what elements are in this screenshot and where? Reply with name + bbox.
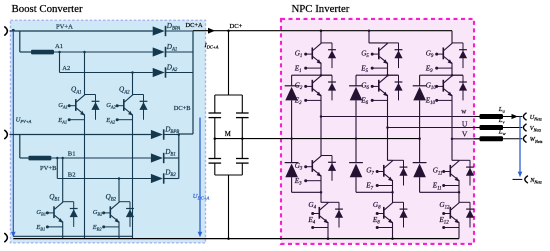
label G of Q8: [373, 201, 381, 211]
wire node to Q4 collector: [321, 192, 328, 202]
label PV+A: [56, 24, 73, 31]
voltage arrow to N_Netz: [518, 117, 523, 178]
label E of Q6: [360, 97, 368, 107]
wire phase U: [388, 127, 481, 129]
label G of Q1: [295, 49, 303, 59]
freewheel diode of Q12: [459, 202, 474, 227]
wire Q10 emitter to phase tap and Q11 collector: [451, 100, 459, 160]
wire Q5 emitter to node: [387, 68, 389, 75]
label QA2: [119, 86, 130, 96]
wire Q12 emitter to DC- rail: [458, 228, 460, 239]
label DC+: [230, 23, 243, 30]
label E of Q3: [294, 177, 302, 187]
wire Q3 emitter to node: [320, 181, 322, 193]
svg-text:NPC Inverter: NPC Inverter: [292, 3, 350, 15]
clamp diode lower leg 3: [413, 139, 427, 193]
wire DC- rail: [13, 237, 459, 240]
wire PV+A to inductor A: [20, 31, 31, 52]
label QA1: [71, 86, 82, 96]
transistor Q5: [371, 43, 388, 70]
label V: [462, 129, 468, 138]
wire Q9 emitter to node: [451, 68, 453, 75]
wire DC+ rail to Q5 collector: [368, 29, 388, 43]
label D_A1: [166, 43, 178, 53]
wire branch A2: [60, 52, 153, 74]
label D_A2: [166, 63, 178, 73]
wire grid phase V: [503, 127, 523, 129]
inductor channel B: [28, 156, 51, 161]
label L_u: [498, 106, 506, 114]
wire grid phase U: [503, 116, 523, 118]
freewheel diode of Q_A1: [85, 95, 100, 120]
node M rail: [214, 137, 420, 140]
wire lower clamp node leg 1: [292, 191, 323, 194]
svg-text:PV+A: PV+A: [56, 24, 73, 31]
label D_BPB: [164, 125, 179, 135]
wire node to Q12 collector: [458, 192, 460, 202]
transistor Q6: [371, 75, 388, 102]
label U_PV+A: [16, 116, 32, 124]
svg-text:M: M: [225, 131, 231, 138]
voltage arrow U_PV+A: [11, 31, 16, 237]
label E of Q8: [372, 216, 380, 226]
svg-text:A2: A2: [62, 65, 70, 72]
wire upper clamp node leg 3: [420, 74, 463, 77]
label G of Q9: [426, 49, 434, 59]
wire Q7 emitter to node: [392, 186, 394, 193]
svg-text:B2: B2: [68, 171, 76, 178]
wire DC link bottom join: [215, 175, 243, 240]
label E of Q2: [294, 97, 302, 107]
wire emitter Q_B1 to negative rail: [62, 227, 64, 239]
wire lower clamp node leg 3: [420, 191, 461, 194]
label E of Q5: [360, 64, 368, 74]
capacitor bank upper: [209, 95, 249, 139]
wire upper clamp node leg 2: [356, 74, 399, 77]
label E of Q11: [432, 182, 442, 192]
freewheel diode of Q4: [328, 202, 343, 227]
label G of Q7: [366, 167, 374, 177]
title Boost Converter: [12, 3, 83, 15]
label E of Q_A2: [105, 117, 116, 125]
label D_B2: [164, 168, 176, 178]
freewheel diode of Q5: [388, 43, 403, 68]
label M: [225, 131, 231, 138]
wire branch B1: [51, 157, 150, 160]
wire node to Q8 collector: [392, 192, 394, 202]
freewheel diode of Q6: [388, 75, 403, 100]
freewheel diode of Q8: [393, 202, 408, 227]
wire emitter Q_A1 to negative rail: [84, 120, 86, 239]
label E of Q12: [438, 216, 449, 226]
label W_Netz: [530, 136, 543, 144]
wire collector Q_A2: [132, 73, 134, 95]
label B2: [68, 171, 76, 178]
freewheel diode of Q11: [459, 160, 474, 185]
wire neutral N: [513, 178, 523, 180]
label DC+B: [174, 105, 191, 112]
label A2: [62, 65, 70, 72]
wire DC link drop: [215, 31, 243, 95]
wire emitter Q_B2 to negative rail: [118, 227, 120, 239]
transistor Q3: [304, 156, 321, 183]
clamp diode upper leg 2: [349, 75, 363, 140]
wire phase W: [321, 116, 480, 118]
wire Q2 emitter to phase tap and Q3 collector: [320, 100, 323, 155]
wire PV+B rail: [10, 134, 151, 136]
arrow on DC+ rail: [208, 28, 215, 34]
label QB2: [106, 193, 117, 203]
label E of Q10: [425, 97, 436, 107]
freewheel diode of Q2: [321, 75, 336, 100]
wire collector Q_B2: [118, 179, 120, 202]
clamp diode lower leg 2: [349, 139, 363, 193]
label W: [461, 108, 467, 116]
diode D_B1: [151, 153, 179, 163]
svg-text:A1: A1: [55, 43, 63, 50]
diode D_BPB: [151, 129, 179, 139]
label I_DC+A: [204, 42, 219, 50]
wire lower clamp node leg 2: [356, 191, 394, 194]
label G of Q10: [426, 82, 437, 92]
wire DC+B cathode bus: [178, 135, 180, 179]
transistor Q11: [442, 161, 459, 188]
arrow on phase W wire: [512, 114, 518, 119]
wire upper clamp node leg 1: [292, 74, 332, 77]
svg-text:B1: B1: [68, 150, 76, 157]
label U_DC+A: [193, 193, 210, 201]
neutral terminal N_Netz: [525, 176, 528, 183]
wire Q1 emitter to node: [320, 68, 322, 75]
wire Q6 emitter to phase tap and Q7 collector: [386, 100, 392, 160]
transistor Q7: [376, 161, 393, 188]
freewheel diode of Q9: [452, 43, 467, 68]
grid terminal W_Netz: [523, 135, 526, 142]
wire branch A1: [54, 51, 153, 54]
wire collector Q_A1: [84, 52, 86, 95]
wire PV+A rail: [10, 29, 153, 32]
wire phase V: [452, 138, 480, 140]
label G of Q12: [439, 201, 450, 211]
freewheel diode of Q7: [393, 160, 408, 185]
label E of Q_B2: [92, 224, 103, 232]
label G of Q_B2: [93, 209, 103, 217]
transistor Q12: [442, 203, 459, 230]
NPC inverter enclosure box: [281, 19, 474, 244]
filter inductor L_v: [474, 125, 503, 130]
svg-text:Boost Converter: Boost Converter: [12, 3, 83, 15]
freewheel diode of Q_A2: [133, 95, 148, 120]
label N_Netz: [529, 177, 542, 185]
transistor Q8: [376, 203, 393, 230]
svg-text:DC+: DC+: [230, 23, 243, 30]
clamp diode lower leg 1: [285, 139, 299, 193]
transistor Q1: [304, 43, 321, 70]
svg-text:DC+A: DC+A: [186, 22, 203, 29]
label QB1: [49, 193, 60, 203]
label A1: [55, 43, 63, 50]
label L_w: [498, 128, 507, 136]
transistor Q_B2: [102, 202, 119, 229]
wire DC+ rail: [193, 29, 452, 32]
label G of Q_A2: [106, 102, 116, 110]
freewheel diode of Q_B1: [63, 202, 78, 227]
label L_v: [498, 117, 506, 125]
transistor Q4: [311, 203, 328, 230]
diode D_B2: [151, 173, 179, 183]
transistor Q2: [304, 75, 321, 102]
label U: [462, 119, 468, 128]
svg-text:U: U: [462, 119, 468, 128]
label D_BPA: [166, 22, 180, 32]
wire emitter bus: [13, 235, 132, 237]
label E of Q9: [425, 64, 433, 74]
wire PV+B to inductor B: [20, 135, 29, 159]
label DC+A: [186, 22, 203, 29]
wire emitter Q_A2 to negative rail: [132, 120, 134, 239]
title NPC Inverter: [292, 3, 350, 15]
label G of Q5: [361, 49, 369, 59]
grid terminal U_Netz: [523, 113, 526, 120]
svg-text:PV+B: PV+B: [40, 165, 57, 172]
label G of Q_A1: [58, 102, 68, 110]
freewheel diode of Q_B2: [119, 202, 134, 227]
label U_Netz: [530, 114, 542, 122]
voltage arrow U_DC+A: [198, 118, 203, 238]
label B1: [68, 150, 76, 157]
wire DC+A cathode bus: [178, 31, 193, 136]
label G of Q6: [361, 82, 369, 92]
filter inductor L_u: [474, 114, 503, 119]
label G of Q3: [295, 162, 303, 172]
label V_Netz: [530, 125, 542, 133]
label E of Q4: [307, 216, 315, 226]
label D_B1: [164, 148, 176, 158]
capacitor bank lower: [209, 139, 249, 175]
wire collector Q_B1: [62, 158, 64, 202]
wire Q11 emitter to node: [458, 186, 460, 193]
label PV+B: [40, 165, 57, 172]
transistor Q_A2: [116, 95, 133, 122]
wire Q4 emitter to DC- rail: [327, 228, 329, 239]
wire DC+ rail to Q1 collector: [320, 31, 322, 43]
input terminal PV+A: [5, 27, 8, 35]
filter inductor L_w: [474, 136, 503, 141]
transistor Q10: [435, 75, 452, 102]
diode D_BPA: [153, 26, 193, 36]
diode D_A1: [153, 47, 193, 57]
transistor Q_A1: [68, 95, 85, 122]
inductor channel A: [31, 50, 54, 55]
diode D_A2: [153, 67, 193, 77]
wire Q8 emitter to DC- rail: [392, 228, 394, 239]
label E of Q_B1: [35, 224, 45, 232]
clamp diode upper leg 1: [285, 75, 299, 140]
label E of Q7: [365, 182, 373, 192]
svg-text:V: V: [462, 129, 468, 138]
freewheel diode of Q3: [321, 156, 336, 181]
label E of Q1: [294, 64, 302, 74]
freewheel diode of Q10: [452, 75, 467, 100]
transistor Q_B1: [46, 202, 63, 229]
label E of Q_A1: [57, 117, 67, 125]
clamp diode upper leg 3: [413, 75, 427, 140]
label G of Q2: [295, 82, 303, 92]
input terminal PV+B: [5, 130, 8, 138]
grid terminal V_Netz: [523, 124, 526, 131]
label G of Q11: [433, 167, 443, 177]
svg-text:DC+B: DC+B: [174, 105, 191, 112]
transistor Q9: [435, 43, 452, 70]
boost converter enclosure box: [11, 20, 206, 243]
wire grid phase W: [503, 138, 523, 140]
freewheel diode of Q1: [321, 43, 336, 68]
label G of Q_B1: [36, 209, 46, 217]
label G of Q4: [308, 201, 316, 211]
wire branch B2: [57, 158, 151, 180]
input terminal PV-: [5, 234, 8, 242]
wire DC+ rail to Q9 collector: [451, 31, 453, 43]
